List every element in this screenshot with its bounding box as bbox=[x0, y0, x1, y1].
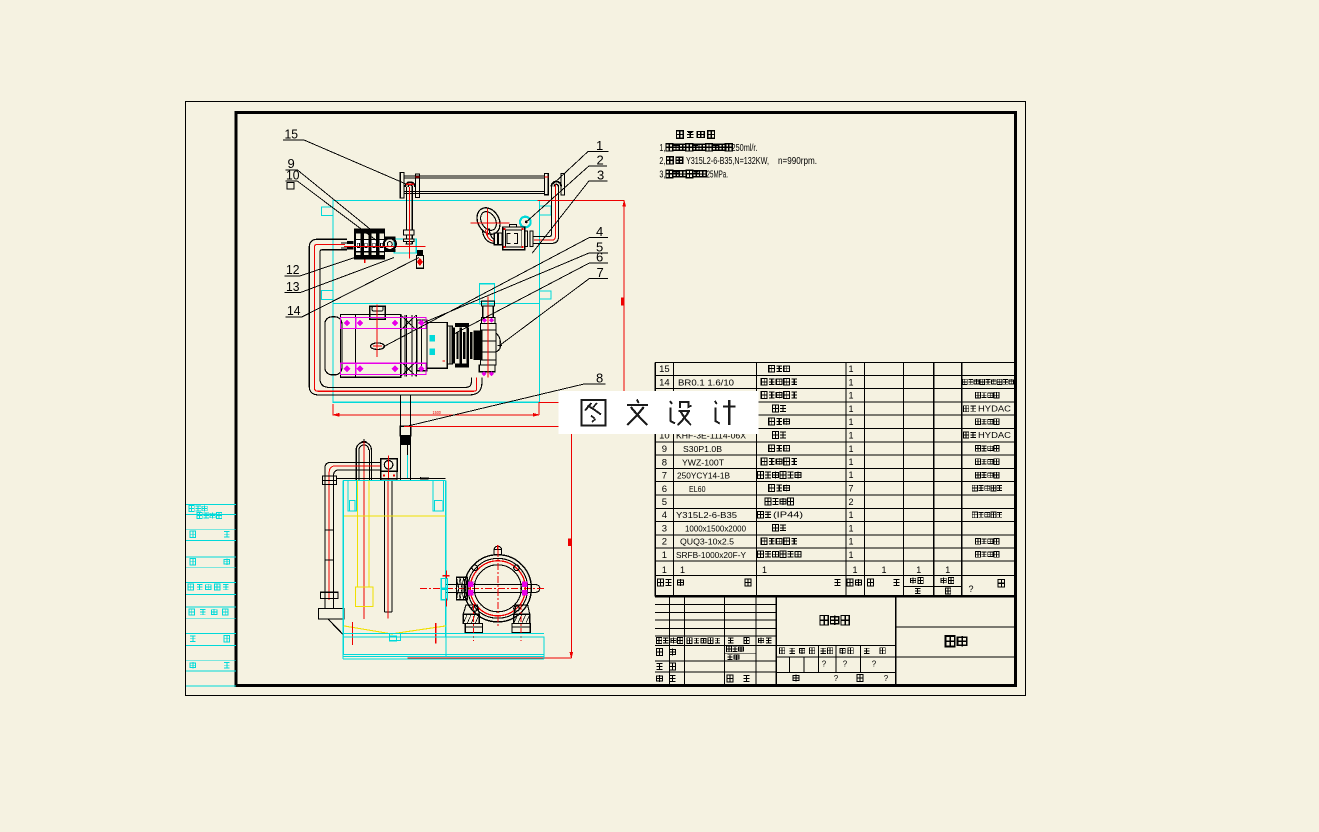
svg-text:1: 1 bbox=[596, 138, 603, 153]
svg-text:3,: 3, bbox=[659, 170, 665, 181]
svg-text:?: ? bbox=[884, 674, 889, 683]
svg-text:15: 15 bbox=[659, 364, 670, 375]
svg-text:QUQ3-10x2.5: QUQ3-10x2.5 bbox=[680, 537, 734, 547]
svg-text:10: 10 bbox=[286, 167, 300, 182]
svg-text:6: 6 bbox=[662, 484, 667, 495]
svg-text:1000x1500x2000: 1000x1500x2000 bbox=[685, 524, 746, 534]
svg-text:1: 1 bbox=[881, 565, 886, 575]
svg-text:HYDAC: HYDAC bbox=[978, 405, 1011, 414]
svg-text:1: 1 bbox=[848, 431, 853, 441]
svg-text:1,: 1, bbox=[659, 143, 665, 154]
svg-text:1: 1 bbox=[945, 565, 950, 575]
svg-text:SRFB-1000x20F-Y: SRFB-1000x20F-Y bbox=[676, 550, 746, 560]
svg-text:?: ? bbox=[822, 660, 827, 669]
svg-text:?: ? bbox=[969, 584, 974, 594]
svg-text:1: 1 bbox=[848, 377, 853, 387]
svg-text:25MPa.: 25MPa. bbox=[707, 170, 729, 181]
svg-text:7: 7 bbox=[597, 265, 604, 280]
svg-text:14: 14 bbox=[659, 378, 670, 389]
svg-text:1: 1 bbox=[916, 565, 921, 575]
svg-text:8: 8 bbox=[662, 457, 667, 468]
svg-text:1: 1 bbox=[848, 550, 853, 560]
svg-text:1: 1 bbox=[848, 457, 853, 467]
svg-text:n=990rpm.: n=990rpm. bbox=[778, 156, 817, 167]
svg-text:1: 1 bbox=[848, 391, 853, 401]
svg-text:Y315L2-6-B35,N=132KW,: Y315L2-6-B35,N=132KW, bbox=[686, 156, 769, 167]
svg-text:1: 1 bbox=[848, 417, 853, 427]
svg-text:BR0.1 1.6/10: BR0.1 1.6/10 bbox=[678, 378, 734, 388]
svg-text:250YCY14-1B: 250YCY14-1B bbox=[677, 470, 730, 480]
svg-text:7: 7 bbox=[848, 484, 853, 494]
svg-text:15: 15 bbox=[285, 127, 299, 142]
svg-text:14: 14 bbox=[287, 303, 301, 318]
svg-text:12: 12 bbox=[286, 262, 300, 277]
svg-text:1: 1 bbox=[662, 565, 667, 575]
svg-text:1: 1 bbox=[680, 565, 685, 575]
svg-text:2: 2 bbox=[662, 537, 667, 548]
svg-text:?: ? bbox=[872, 660, 877, 669]
svg-text:YWZ-100T: YWZ-100T bbox=[682, 457, 724, 467]
svg-text:?: ? bbox=[834, 674, 839, 683]
svg-text:1: 1 bbox=[848, 444, 853, 454]
svg-text:?: ? bbox=[843, 660, 848, 669]
svg-text:8: 8 bbox=[596, 371, 603, 386]
svg-text:4: 4 bbox=[596, 224, 603, 239]
svg-text:13: 13 bbox=[286, 279, 300, 294]
svg-text:7: 7 bbox=[662, 470, 667, 481]
svg-text:1: 1 bbox=[662, 550, 667, 561]
svg-text:2: 2 bbox=[848, 497, 853, 507]
svg-text:1: 1 bbox=[848, 536, 853, 546]
svg-text:3: 3 bbox=[597, 167, 604, 182]
svg-text:2: 2 bbox=[597, 153, 604, 168]
svg-text:1500: 1500 bbox=[433, 410, 442, 416]
svg-text:(IP44): (IP44) bbox=[773, 511, 803, 520]
svg-text:S30P1.0B: S30P1.0B bbox=[683, 444, 722, 454]
svg-text:2,: 2, bbox=[659, 156, 665, 167]
svg-text:HYDAC: HYDAC bbox=[978, 431, 1011, 440]
svg-text:Y315L2-6-B35: Y315L2-6-B35 bbox=[676, 510, 737, 520]
svg-text:1: 1 bbox=[848, 470, 853, 480]
svg-text:4: 4 bbox=[662, 510, 667, 521]
svg-text:1: 1 bbox=[762, 565, 767, 575]
svg-text:1: 1 bbox=[852, 565, 857, 575]
svg-text:250ml/r.: 250ml/r. bbox=[732, 143, 758, 154]
svg-text:6: 6 bbox=[596, 250, 603, 265]
svg-text:3: 3 bbox=[662, 524, 667, 535]
svg-text:1: 1 bbox=[848, 510, 853, 520]
svg-text:1: 1 bbox=[848, 523, 853, 533]
svg-text:1: 1 bbox=[848, 404, 853, 414]
svg-text:5: 5 bbox=[662, 497, 667, 508]
svg-text:9: 9 bbox=[662, 444, 667, 455]
svg-text:EL60: EL60 bbox=[689, 484, 706, 494]
svg-text:1: 1 bbox=[848, 364, 853, 374]
